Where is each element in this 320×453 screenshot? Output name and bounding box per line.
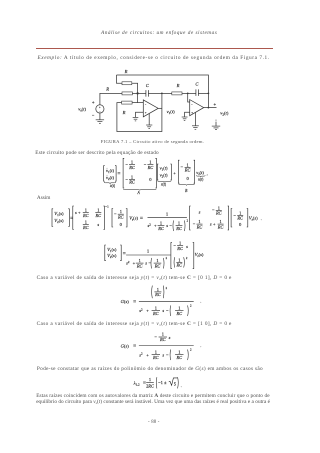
svg-text:−: − — [212, 208, 215, 213]
resistor R second stage — [172, 92, 182, 95]
svg-text:RC: RC — [176, 246, 183, 251]
resistor R overall feedback — [122, 82, 132, 85]
wire U1 feedback loop left and bottom — [117, 93, 162, 131]
wire U2 noninverting input — [185, 112, 190, 117]
caso v1 line — [37, 321, 232, 327]
svg-text:+: + — [133, 261, 136, 266]
svg-text:R: R — [105, 87, 109, 92]
svg-text:s2: s2 — [148, 223, 152, 229]
exemplo paragraph — [38, 55, 270, 61]
svg-text:s2: s2 — [126, 260, 130, 266]
label R of second stage — [176, 83, 180, 88]
resistor R feedback of U1 — [122, 101, 133, 104]
svg-text:s2: s2 — [139, 308, 143, 314]
svg-text:s: s — [162, 352, 164, 357]
label R top feedback — [124, 69, 128, 74]
svg-text:s: s — [169, 335, 171, 340]
svg-text:RC: RC — [175, 355, 182, 360]
wire input resistor to node A — [132, 92, 137, 94]
plus terminal label of source — [92, 101, 94, 103]
resistor R input — [122, 92, 132, 95]
svg-text:v1(t): v1(t) — [106, 168, 114, 174]
svg-text:−: − — [144, 162, 147, 167]
svg-text:2: 2 — [190, 303, 192, 307]
svg-text:RC: RC — [147, 165, 154, 170]
top feedback rail wire — [117, 75, 209, 108]
junction dot feedback column — [208, 93, 210, 95]
svg-text:A: A — [136, 191, 140, 195]
wire output reference stub — [216, 120, 217, 127]
node B junction dot — [187, 93, 189, 95]
label C2 — [195, 81, 199, 86]
svg-text:RC: RC — [152, 355, 159, 360]
svg-text:RC: RC — [117, 214, 124, 219]
svg-text:G(s): G(s) — [121, 343, 130, 348]
wire U1 noninverting input — [136, 112, 144, 117]
svg-text:v2(t): v2(t) — [160, 173, 168, 179]
svg-text:2: 2 — [186, 256, 188, 260]
svg-text:v2(t): v2(t) — [106, 175, 114, 181]
svg-text:G(s): G(s) — [121, 299, 130, 304]
svg-text:0: 0 — [239, 222, 242, 227]
wire node A to capacitor C1 — [138, 92, 146, 94]
plus terminal label of output — [214, 103, 216, 105]
svg-text:−: − — [193, 222, 196, 227]
svg-text:RC: RC — [152, 311, 159, 316]
svg-text:+: + — [173, 170, 176, 175]
wire node B down to U2 inverting input — [188, 93, 190, 102]
equation: state equation — [104, 166, 105, 182]
svg-text:−1: −1 — [105, 205, 109, 209]
svg-text:vs(t): vs(t) — [196, 170, 204, 176]
svg-text:v1(t): v1(t) — [160, 166, 168, 172]
svg-text:s2: s2 — [139, 352, 143, 358]
label v2(t) — [220, 110, 229, 116]
svg-text:V1(s): V1(s) — [54, 211, 64, 217]
svg-text:RC: RC — [157, 226, 164, 231]
svg-text:RC: RC — [128, 180, 135, 185]
ground at U1 noninverting input — [133, 117, 139, 121]
wire node B to capacitor C2 — [188, 92, 196, 94]
svg-text:RC: RC — [175, 311, 182, 316]
svg-text:−: − — [233, 213, 236, 218]
wire C1 to U1 output column — [148, 92, 162, 94]
wire source to ground — [99, 113, 101, 120]
svg-text:−: − — [114, 212, 117, 217]
svg-text:−: − — [166, 352, 169, 357]
pode-se line — [37, 366, 263, 372]
svg-text:-: - — [191, 101, 193, 106]
svg-text:,: , — [207, 171, 208, 177]
label vs(t) — [78, 106, 86, 112]
svg-text:RC: RC — [154, 292, 161, 297]
svg-text:u(t): u(t) — [198, 177, 204, 181]
svg-text:vs(t): vs(t) — [78, 106, 86, 112]
body line 1 — [35, 150, 159, 156]
svg-text:RC: RC — [159, 337, 166, 342]
svg-text:RC: RC — [217, 224, 224, 229]
svg-text:s +: s + — [210, 222, 216, 227]
svg-text:RC: RC — [184, 168, 191, 173]
svg-text:RC: RC — [215, 211, 222, 216]
svg-text:RC: RC — [154, 263, 161, 268]
svg-text:Vs(s): Vs(s) — [129, 216, 138, 222]
ground below U2 — [192, 126, 199, 130]
svg-text:+: + — [154, 223, 157, 228]
svg-text:1: 1 — [147, 249, 150, 254]
ground at U2 noninverting input — [182, 117, 188, 121]
wire R2 to node B — [182, 92, 188, 94]
wire U1 feedback resistor to inverting input — [132, 102, 143, 104]
svg-text:s: s — [166, 223, 168, 228]
svg-text:Vs(s): Vs(s) — [195, 252, 204, 258]
svg-text:s +: s + — [75, 210, 81, 215]
voltage source vs — [96, 105, 104, 114]
Assim — [37, 195, 51, 201]
svg-text:−1 ±: −1 ± — [158, 380, 167, 385]
svg-text:−: − — [125, 162, 128, 167]
svg-text:.: . — [200, 343, 201, 348]
svg-text:+: + — [145, 111, 147, 115]
svg-text:RC: RC — [94, 213, 101, 218]
wire U1 supply stub — [148, 114, 150, 126]
svg-text:B: B — [185, 189, 188, 193]
label v1(t) — [167, 109, 176, 115]
label C1 — [146, 83, 150, 88]
svg-text:RC: RC — [196, 224, 203, 229]
svg-text:RC: RC — [175, 263, 182, 268]
wire node A up to feedback resistor — [132, 83, 138, 93]
svg-text:1: 1 — [162, 332, 164, 337]
svg-text:0: 0 — [186, 176, 189, 181]
svg-text:C: C — [195, 81, 199, 86]
svg-text:RC: RC — [175, 226, 182, 231]
capacitor C1 — [146, 90, 149, 97]
ground output reference — [212, 126, 220, 130]
svg-text:.: . — [261, 216, 262, 221]
equation: Laplace solution — [52, 209, 53, 227]
wire U2 output to terminal — [204, 107, 217, 109]
op-amp U1 — [143, 100, 158, 117]
svg-text:2: 2 — [166, 256, 168, 260]
svg-text:+: + — [146, 308, 149, 313]
label R feedback of U1 — [122, 110, 126, 115]
svg-text:V1(s): V1(s) — [107, 247, 117, 253]
capacitor C2 — [196, 89, 199, 96]
svg-text:RC: RC — [236, 216, 243, 221]
svg-text:+: + — [146, 352, 149, 357]
wire v1 to resistor R2 — [162, 92, 172, 94]
svg-text:s: s — [145, 261, 147, 266]
svg-text:s: s — [186, 244, 188, 249]
svg-text:v2(t): v2(t) — [220, 110, 229, 116]
svg-text:RC: RC — [82, 213, 89, 218]
svg-text:−: − — [173, 243, 176, 248]
node A junction dot — [136, 92, 138, 94]
wire U2 supply stub — [194, 113, 196, 126]
svg-text:V2(s): V2(s) — [107, 253, 117, 259]
figure caption — [101, 139, 204, 144]
svg-text:λ1,2: λ1,2 — [133, 380, 140, 387]
svg-text:2: 2 — [190, 348, 192, 352]
page number — [148, 420, 160, 425]
svg-text:−: − — [180, 165, 183, 170]
svg-text:R: R — [122, 110, 126, 115]
svg-text:1: 1 — [149, 377, 151, 382]
red rule — [36, 47, 273, 50]
svg-text:2: 2 — [187, 218, 189, 222]
svg-text:0: 0 — [120, 222, 123, 227]
ground below source — [96, 120, 104, 124]
svg-text:V2(s): V2(s) — [54, 218, 64, 224]
label R input resistor — [105, 87, 109, 92]
wire node A down to op-amp U1 inverting input — [137, 93, 139, 102]
svg-text:+: + — [191, 111, 193, 115]
svg-text:−: − — [166, 308, 169, 313]
svg-text:Vs(s): Vs(s) — [249, 216, 258, 222]
equation: V vector result — [105, 245, 106, 261]
svg-text:RC: RC — [82, 225, 89, 230]
svg-text:C: C — [146, 83, 150, 88]
svg-text:s: s — [97, 222, 99, 227]
svg-text:x(t): x(t) — [160, 183, 167, 187]
junction dot output node — [208, 107, 210, 109]
svg-text:−: − — [154, 334, 157, 339]
junction dot v1 column — [161, 93, 163, 95]
svg-text:-: - — [145, 102, 147, 107]
svg-text:x(t): x(t) — [109, 184, 116, 188]
wire source top to input resistor — [100, 93, 122, 105]
svg-text:−: − — [169, 223, 172, 228]
svg-text:RC: RC — [136, 263, 143, 268]
wire C2 to output column — [198, 92, 208, 94]
op-amp U2 — [190, 100, 204, 116]
svg-text:R: R — [176, 83, 180, 88]
svg-text:.: . — [181, 383, 182, 388]
svg-text:R: R — [124, 69, 128, 74]
minus terminal label of source — [92, 114, 94, 116]
svg-text:2: 2 — [166, 286, 168, 290]
svg-text:RC: RC — [128, 165, 135, 170]
running head — [101, 30, 217, 36]
final paragraph — [36, 393, 269, 399]
svg-text:0: 0 — [149, 177, 152, 182]
svg-text:s: s — [162, 308, 164, 313]
ground below U1 — [146, 125, 152, 129]
wire U1 output — [158, 107, 162, 109]
svg-text:−: − — [125, 177, 128, 182]
svg-text:v1(t): v1(t) — [167, 109, 176, 115]
svg-text:1: 1 — [166, 212, 169, 217]
svg-text:2RC: 2RC — [146, 384, 154, 389]
caso v2 line — [37, 275, 232, 281]
svg-text:s: s — [199, 209, 201, 214]
svg-text:5: 5 — [174, 381, 177, 386]
wire feedback resistor to top rail — [117, 75, 123, 83]
svg-text:.: . — [200, 299, 201, 304]
